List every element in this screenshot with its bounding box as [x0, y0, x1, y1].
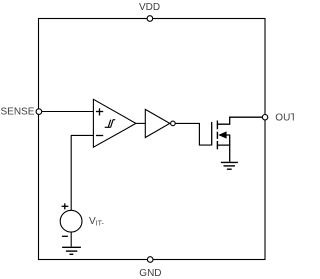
- svg-text:OUT: OUT: [275, 112, 294, 123]
- svg-text:VIT-: VIT-: [89, 216, 105, 227]
- svg-text:SENSE: SENSE: [1, 106, 35, 117]
- svg-text:GND: GND: [139, 268, 161, 279]
- svg-text:VDD: VDD: [139, 2, 160, 13]
